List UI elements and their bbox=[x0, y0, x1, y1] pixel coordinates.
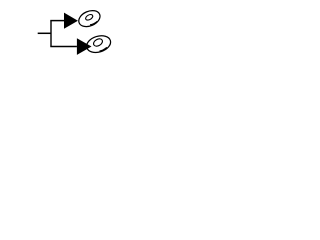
horn H1 driver triangle bbox=[64, 13, 78, 29]
wire top branch bbox=[50, 20, 64, 22]
horn H2 driver triangle bbox=[77, 38, 92, 55]
horn H2 spiral tail bbox=[100, 47, 107, 51]
horn H1 mouth outer ellipse bbox=[76, 8, 102, 30]
wire bottom branch bbox=[50, 46, 77, 48]
horn H1 inner ellipse bbox=[85, 13, 94, 21]
horn H1 spiral tail bbox=[90, 21, 97, 25]
horn H2 mouth outer ellipse bbox=[85, 33, 113, 55]
wire vertical branch bbox=[50, 21, 52, 47]
horn H2 inner ellipse bbox=[92, 37, 104, 47]
wire input stub bbox=[38, 32, 51, 34]
